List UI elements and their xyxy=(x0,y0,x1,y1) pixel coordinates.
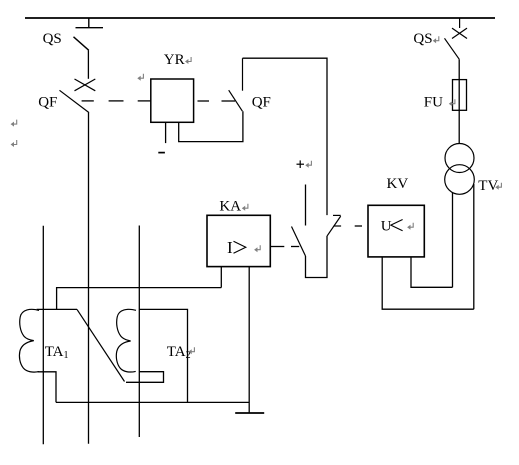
svg-text:QF: QF xyxy=(38,95,57,111)
disconnector QS (right) xyxy=(445,18,468,59)
feeder line 3 xyxy=(138,226,140,438)
wire top link to vertical xyxy=(243,58,328,215)
svg-text:QS: QS xyxy=(43,31,62,47)
return mark (after FU) xyxy=(449,99,455,106)
return mark (after KA) xyxy=(242,204,248,211)
KV wire to TV left lead xyxy=(411,257,453,287)
KA contact blade xyxy=(292,227,306,257)
mechanical linkage dashed line YR-QF(right) xyxy=(198,100,236,102)
KA stub to wire A xyxy=(220,267,222,288)
return mark (inside KA) xyxy=(254,245,260,252)
svg-text:FU: FU xyxy=(424,95,443,111)
breaker contact Z (right branch) xyxy=(327,215,341,235)
return mark (left margin 2) xyxy=(11,140,17,147)
return mark (after TA2) xyxy=(188,347,194,354)
feeder wire below QF (line 2) xyxy=(88,113,90,444)
mechanical linkage dashed line QF-YR xyxy=(82,100,151,102)
current transformer TA2 xyxy=(116,309,136,372)
svg-text:KA: KA xyxy=(219,199,241,215)
wire YR to QF aux contact xyxy=(179,111,243,141)
TA2 bottom tap J-wire xyxy=(126,372,164,383)
mechanical linkage dashed line KA-contact xyxy=(270,246,299,248)
breaker QF X mark (left) xyxy=(75,79,96,91)
return mark (after plus) xyxy=(305,161,311,168)
wire plus to KA contact xyxy=(305,185,307,226)
return mark (after YR) xyxy=(185,57,191,64)
TV secondary lead right xyxy=(473,184,475,309)
crossing wire TA1-TA2 xyxy=(77,309,125,381)
minus sign xyxy=(158,152,165,154)
return mark (left of YR) xyxy=(137,74,143,81)
ground xyxy=(235,412,264,414)
KV wire to TV right lead xyxy=(382,257,474,309)
wire KA contact U-loop xyxy=(306,236,328,278)
TA1 bottom tap xyxy=(38,372,56,403)
svg-text:YR: YR xyxy=(164,52,185,68)
wire A (KA to TA1 top) xyxy=(57,288,222,310)
relay KV box xyxy=(368,205,424,257)
YR negative stub xyxy=(165,122,167,143)
return mark (after TV) xyxy=(495,183,501,190)
svg-text:TA1: TA1 xyxy=(45,344,69,361)
svg-text:I: I xyxy=(227,238,233,257)
busbar xyxy=(25,17,495,19)
KA stub to ground xyxy=(248,267,250,413)
svg-text:TV: TV xyxy=(478,178,498,194)
return mark (inside KV) xyxy=(407,223,413,230)
voltage transformer TV xyxy=(445,144,475,195)
current transformer TA1 xyxy=(19,309,39,372)
svg-text:QS: QS xyxy=(413,31,432,47)
svg-text:QF: QF xyxy=(252,95,271,111)
svg-text:KV: KV xyxy=(387,176,409,192)
mechanical linkage dashed line contact-KV xyxy=(355,225,362,227)
TA1 top tap xyxy=(37,308,77,310)
TV secondary lead left xyxy=(452,193,454,288)
return mark (left margin 1) xyxy=(11,120,17,127)
svg-text:U: U xyxy=(381,219,392,235)
return mark (after right QS) xyxy=(433,36,439,43)
plus supply xyxy=(297,160,305,168)
breaker QF blade (left) xyxy=(60,90,90,112)
wire B (bottom secondary) xyxy=(56,401,249,403)
trip coil YR box xyxy=(151,79,194,122)
wire QS to TV xyxy=(458,59,460,143)
relay KA box xyxy=(207,215,270,266)
fuse FU xyxy=(453,80,467,111)
TA2 top tap xyxy=(139,309,187,402)
QF auxiliary contact (right) xyxy=(229,58,243,111)
feeder line 1 xyxy=(42,226,44,444)
disconnector QS (left) xyxy=(74,18,104,50)
wire QS to QF (left) xyxy=(87,50,89,79)
